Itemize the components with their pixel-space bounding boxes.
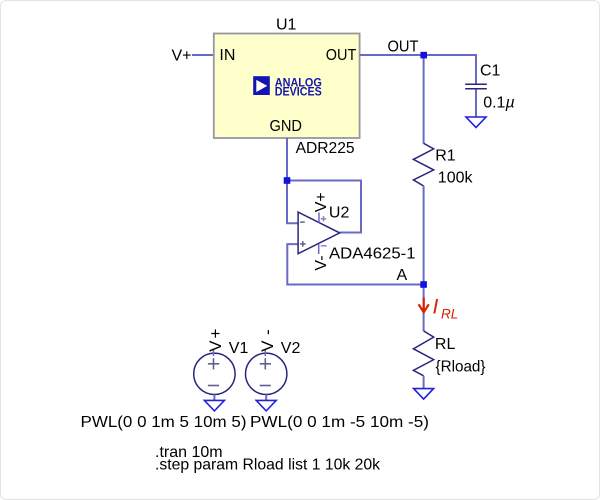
capacitor C1	[465, 84, 487, 89]
opamp V+ power stub	[318, 213, 320, 223]
V1 minus marker	[208, 385, 219, 387]
Analog Devices logo	[253, 76, 322, 99]
R1 reference label	[435, 147, 456, 164]
V2 minus marker	[260, 385, 271, 387]
net flag V+ at opamp top	[313, 192, 330, 212]
junction at node OUT	[420, 52, 427, 59]
svg-text:V+: V+	[172, 48, 192, 65]
voltage source V1	[194, 350, 235, 395]
svg-text:100k: 100k	[438, 169, 474, 186]
net flag V- at opamp bottom	[313, 255, 330, 270]
wire to inverting input	[287, 181, 298, 224]
ground below V2	[256, 400, 276, 411]
svg-text:U1: U1	[276, 17, 297, 34]
wire node OUT down to R1	[423, 55, 425, 144]
ground below RL	[414, 389, 434, 400]
opamp power minus marker	[321, 245, 327, 247]
C1 reference label	[480, 63, 501, 80]
U1 reference designator	[276, 17, 297, 34]
svg-text:V1: V1	[229, 340, 249, 357]
ground below C1	[466, 117, 486, 128]
svg-text:V-: V-	[258, 323, 277, 352]
node A label	[397, 267, 408, 284]
svg-text:{Rload}: {Rload}	[436, 358, 487, 375]
RL reference label	[435, 336, 456, 353]
V2 reference designator	[281, 340, 301, 357]
node OUT label	[388, 39, 419, 56]
pin label OUT	[326, 47, 357, 64]
wire OUT corner down to C1	[475, 54, 477, 84]
wire R1 to node A	[423, 186, 425, 285]
U2 reference designator	[329, 204, 350, 221]
svg-text:GND: GND	[270, 118, 303, 135]
resistor RL	[413, 331, 433, 376]
R1 value label 100k	[438, 169, 474, 186]
svg-text:IN: IN	[219, 47, 235, 64]
svg-text:ADR225: ADR225	[296, 140, 355, 157]
wire V2 to ground	[265, 395, 267, 401]
current label I_RL	[433, 296, 459, 322]
spice directive .tran	[155, 444, 223, 461]
wire U1 OUT to node OUT	[360, 54, 476, 56]
svg-text:DEVICES: DEVICES	[275, 85, 322, 99]
C1 value label 0.1u	[483, 95, 514, 112]
wire noninverting input to node A	[287, 244, 423, 284]
net flag V+ at V1	[206, 327, 225, 352]
svg-text:OUT: OUT	[326, 47, 357, 64]
svg-text:RL: RL	[435, 336, 456, 353]
wire node A down to RL	[423, 285, 425, 332]
svg-text:V+: V+	[313, 192, 330, 212]
svg-text:.step param Rload list 1 10k 2: .step param Rload list 1 10k 20k	[155, 457, 381, 474]
svg-text:PWL(0 0 1m 5 10m 5): PWL(0 0 1m 5 10m 5)	[81, 414, 247, 431]
U1 value label ADR225	[296, 140, 355, 157]
opamp V- power stub	[318, 244, 320, 254]
svg-text:V-: V-	[313, 255, 330, 270]
net flag V- at V2	[258, 323, 277, 352]
voltage source V2	[246, 350, 287, 395]
opamp power plus marker	[321, 216, 326, 221]
wire opamp output	[340, 232, 362, 234]
IC U1 body	[214, 34, 360, 139]
wire RL to ground	[423, 376, 425, 389]
wire C1 to ground	[475, 90, 477, 117]
svg-text:RL: RL	[441, 307, 458, 322]
junction at feedback node	[284, 177, 291, 184]
svg-text:R1: R1	[435, 147, 456, 164]
svg-text:ADA4625-1: ADA4625-1	[329, 245, 416, 262]
V2 plus marker	[260, 358, 271, 369]
V1 plus marker	[208, 358, 219, 369]
pin label IN	[219, 47, 235, 64]
V1 reference designator	[229, 340, 249, 357]
RL value label {Rload}	[436, 358, 487, 375]
svg-text:V2: V2	[281, 340, 301, 357]
svg-text:U2: U2	[329, 204, 350, 221]
inverting input minus marker	[300, 221, 305, 223]
svg-text:PWL(0 0 1m -5 10m -5): PWL(0 0 1m -5 10m -5)	[250, 414, 429, 431]
wire V+ to IN pin	[192, 54, 214, 56]
U2 value label ADA4625-1	[329, 245, 416, 262]
svg-text:A: A	[397, 267, 408, 284]
current arrow IRL	[419, 298, 429, 313]
spice directive .step	[155, 457, 381, 474]
noninverting input plus marker	[300, 241, 306, 247]
V1 value label PWL	[81, 414, 247, 431]
resistor R1	[413, 143, 433, 186]
svg-text:OUT: OUT	[388, 39, 419, 56]
wire V1 to ground	[213, 395, 215, 401]
wire feedback right	[360, 180, 362, 233]
V2 value label PWL	[250, 414, 429, 431]
svg-text:0.1µ: 0.1µ	[483, 95, 514, 112]
ground below V1	[204, 400, 224, 411]
pin label GND	[270, 118, 303, 135]
junction at node A	[420, 281, 427, 288]
wire U1 GND pin down	[286, 138, 288, 181]
op-amp U2 triangle	[298, 212, 340, 254]
svg-text:I: I	[433, 296, 439, 319]
node V+ label at U1 input	[172, 48, 192, 65]
svg-text:C1: C1	[480, 63, 501, 80]
wire feedback top	[287, 180, 361, 182]
svg-text:V+: V+	[206, 327, 225, 352]
